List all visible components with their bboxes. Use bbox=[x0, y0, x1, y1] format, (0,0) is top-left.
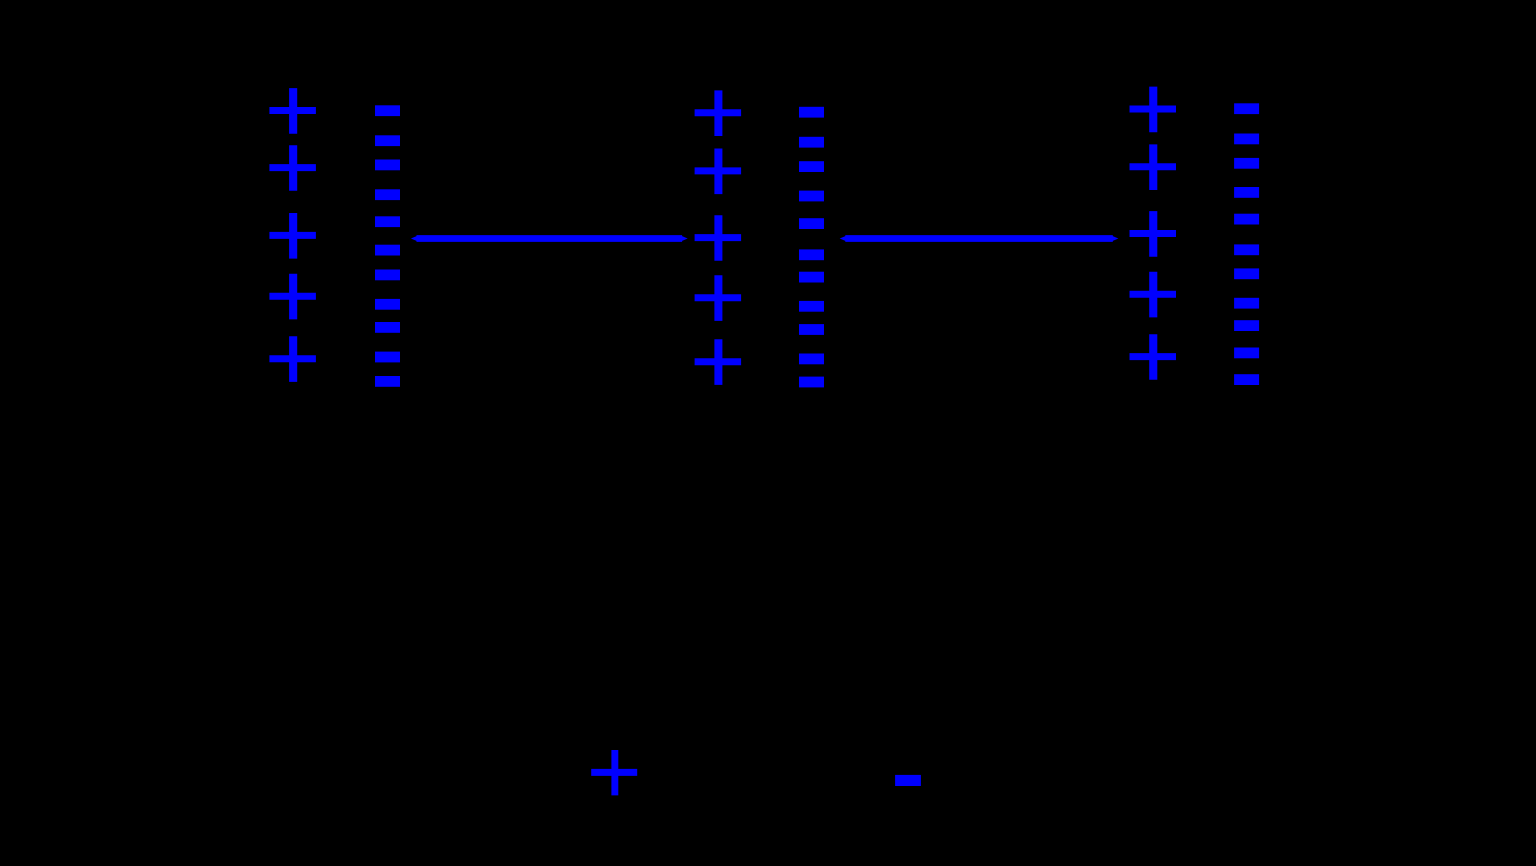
minus charge B2 (right plate of plate pair B) bbox=[799, 137, 824, 148]
minus charge B6 (right plate of plate pair B) bbox=[799, 249, 824, 260]
minus charge A9 (right plate of plate pair A) bbox=[375, 322, 400, 333]
minus charge B11 (right plate of plate pair B) bbox=[799, 377, 824, 388]
plus charge B2 (left plate of plate pair B) bbox=[695, 149, 742, 195]
plus charge A3 (left plate of plate pair A) bbox=[269, 213, 316, 259]
minus charge C5 (right plate of plate pair C) bbox=[1234, 214, 1259, 225]
plus charge A1 (left plate of plate pair A) bbox=[269, 88, 316, 134]
plus charge A4 (left plate of plate pair A) bbox=[269, 274, 316, 320]
minus charge A4 (right plate of plate pair A) bbox=[375, 189, 400, 200]
minus charge C1 (right plate of plate pair C) bbox=[1234, 103, 1259, 114]
plus charge C5 (left plate of plate pair C) bbox=[1130, 334, 1177, 380]
minus charge B9 (right plate of plate pair B) bbox=[799, 324, 824, 335]
plus charge A2 (left plate of plate pair A) bbox=[269, 145, 316, 191]
arrow E2 (double-headed, between plate pair B and C) bbox=[840, 235, 1119, 242]
minus charge A11 (right plate of plate pair A) bbox=[375, 376, 400, 387]
battery positive terminal label bbox=[591, 750, 637, 795]
plus charge C1 (left plate of plate pair C) bbox=[1130, 87, 1177, 133]
plus charge B5 (left plate of plate pair B) bbox=[695, 339, 742, 385]
minus charge C8 (right plate of plate pair C) bbox=[1234, 298, 1259, 309]
arrow E1 (double-headed, between plate pair A and B) bbox=[411, 235, 688, 242]
minus charge C7 (right plate of plate pair C) bbox=[1234, 268, 1259, 279]
minus charge C4 (right plate of plate pair C) bbox=[1234, 187, 1259, 198]
minus charge A1 (right plate of plate pair A) bbox=[375, 105, 400, 116]
minus charge A6 (right plate of plate pair A) bbox=[375, 245, 400, 256]
minus charge C2 (right plate of plate pair C) bbox=[1234, 134, 1259, 145]
plus charge C4 (left plate of plate pair C) bbox=[1130, 272, 1177, 318]
minus charge B3 (right plate of plate pair B) bbox=[799, 161, 824, 172]
minus charge B1 (right plate of plate pair B) bbox=[799, 107, 824, 118]
minus charge C9 (right plate of plate pair C) bbox=[1234, 320, 1259, 331]
plus charge C2 (left plate of plate pair C) bbox=[1130, 144, 1177, 190]
plus charge A5 (left plate of plate pair A) bbox=[269, 336, 316, 382]
minus charge B8 (right plate of plate pair B) bbox=[799, 301, 824, 312]
minus charge B5 (right plate of plate pair B) bbox=[799, 218, 824, 229]
minus charge C10 (right plate of plate pair C) bbox=[1234, 348, 1259, 359]
minus charge B10 (right plate of plate pair B) bbox=[799, 354, 824, 365]
plus charge B4 (left plate of plate pair B) bbox=[695, 275, 742, 321]
minus charge A8 (right plate of plate pair A) bbox=[375, 299, 400, 310]
minus charge C3 (right plate of plate pair C) bbox=[1234, 158, 1259, 169]
minus charge B7 (right plate of plate pair B) bbox=[799, 272, 824, 283]
minus charge A7 (right plate of plate pair A) bbox=[375, 270, 400, 281]
minus charge A5 (right plate of plate pair A) bbox=[375, 216, 400, 227]
plus charge B1 (left plate of plate pair B) bbox=[695, 90, 742, 136]
plus charge C3 (left plate of plate pair C) bbox=[1130, 211, 1177, 257]
minus charge A10 (right plate of plate pair A) bbox=[375, 352, 400, 363]
minus charge C11 (right plate of plate pair C) bbox=[1234, 374, 1259, 385]
plus charge B3 (left plate of plate pair B) bbox=[695, 215, 742, 261]
minus charge B4 (right plate of plate pair B) bbox=[799, 191, 824, 202]
minus charge C6 (right plate of plate pair C) bbox=[1234, 244, 1259, 255]
minus charge A2 (right plate of plate pair A) bbox=[375, 135, 400, 146]
minus charge A3 (right plate of plate pair A) bbox=[375, 160, 400, 171]
battery negative terminal label bbox=[895, 775, 921, 786]
